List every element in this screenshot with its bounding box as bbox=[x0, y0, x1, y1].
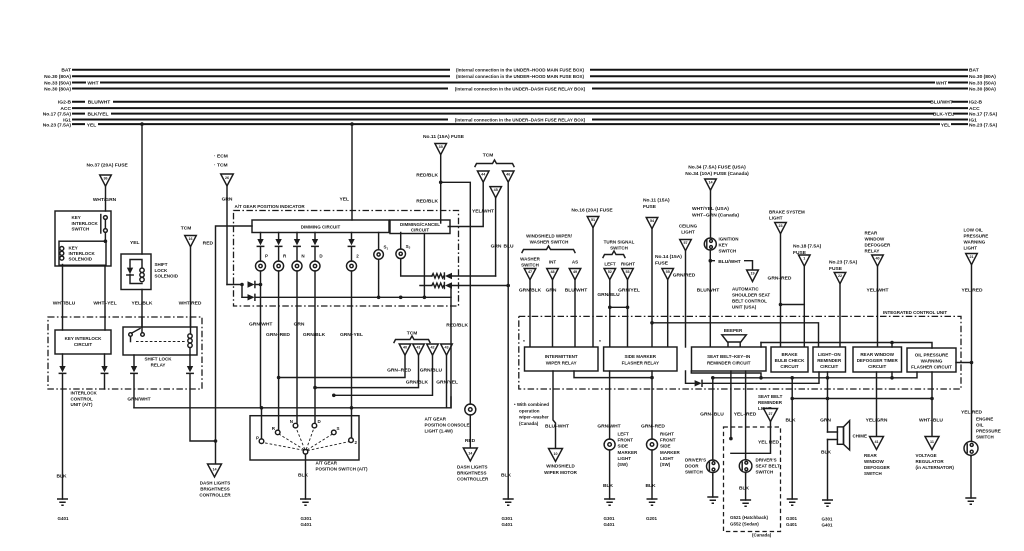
bulb right front side marker light bbox=[647, 439, 658, 450]
key interlock circuit box bbox=[55, 330, 111, 354]
svg-text:LIGHT: LIGHT bbox=[769, 216, 783, 221]
wire WHT-YEL output bbox=[104, 241, 106, 317]
svg-text:WHT: WHT bbox=[87, 80, 98, 86]
svg-text:YEL: YEL bbox=[339, 196, 349, 202]
diode D column bbox=[314, 233, 316, 240]
svg-text:CIRCUIT: CIRCUIT bbox=[868, 364, 886, 369]
wire GRN N column bbox=[296, 271, 298, 423]
svg-text:GRN: GRN bbox=[222, 196, 233, 202]
svg-text:REGULATOR: REGULATOR bbox=[916, 459, 945, 464]
svg-text:No.30 (80A): No.30 (80A) bbox=[969, 74, 996, 80]
svg-text:P: P bbox=[265, 254, 268, 259]
svg-text:SIDE: SIDE bbox=[618, 444, 629, 449]
ground G301 G401 left marker bbox=[604, 499, 615, 505]
svg-text:· ECM: · ECM bbox=[214, 154, 228, 160]
svg-text:CIRCUIT: CIRCUIT bbox=[74, 342, 92, 347]
svg-text:SWITCH: SWITCH bbox=[976, 435, 994, 440]
svg-text:CONTROLLER: CONTROLLER bbox=[457, 477, 489, 482]
wire WHT/YEL fuse to ignition key switch bbox=[710, 190, 712, 238]
svg-text:DRIVER'S: DRIVER'S bbox=[685, 458, 706, 463]
svg-text:ACC: ACC bbox=[969, 106, 980, 112]
svg-text:No.34 (7.5A) FUSE (USA): No.34 (7.5A) FUSE (USA) bbox=[688, 165, 746, 171]
svg-text:11: 11 bbox=[930, 440, 934, 444]
svg-text:WARNING: WARNING bbox=[964, 240, 986, 245]
svg-text:16: 16 bbox=[188, 237, 192, 241]
svg-text:(Internal connection in the UN: (Internal connection in the UNDER–DASH F… bbox=[455, 117, 586, 122]
shift lock solenoid box bbox=[121, 254, 151, 290]
svg-text:UNIT (USA): UNIT (USA) bbox=[732, 305, 757, 310]
svg-text:43: 43 bbox=[444, 346, 448, 350]
svg-text:GRN/WHT: GRN/WHT bbox=[127, 397, 150, 403]
wire BLK switch to ground bbox=[305, 454, 307, 499]
svg-text:BLU/WHT: BLU/WHT bbox=[565, 288, 588, 294]
svg-text:A/T GEAR: A/T GEAR bbox=[425, 417, 447, 422]
svg-text:36: 36 bbox=[103, 177, 107, 181]
shift lock relay contacts bbox=[129, 333, 133, 337]
intermittent wiper relay box bbox=[525, 347, 599, 371]
svg-text:LIGHT–ON: LIGHT–ON bbox=[818, 352, 841, 357]
wire GRN/WHT P column bbox=[260, 271, 262, 285]
svg-text:CEILING: CEILING bbox=[679, 224, 698, 229]
svg-text:GRN/YEL: GRN/YEL bbox=[618, 288, 640, 294]
wire bus No.30 (80A) lower bbox=[73, 88, 967, 90]
svg-text:SWITCH: SWITCH bbox=[521, 262, 539, 267]
dimming/cancel circuit box bbox=[390, 220, 450, 234]
svg-text:LIGHT (1.4W): LIGHT (1.4W) bbox=[425, 429, 454, 434]
svg-text:No.34 (10A) FUSE (Canada): No.34 (10A) FUSE (Canada) bbox=[685, 171, 749, 177]
svg-text:RIGHT: RIGHT bbox=[621, 262, 635, 267]
wire bulb common bus down link bbox=[450, 297, 452, 408]
connector 19 automatic shoulder seat belt control unit bbox=[747, 270, 759, 282]
svg-text:GRN: GRN bbox=[294, 322, 305, 328]
bus annotation internal connection under-hood line2 bbox=[450, 73, 590, 80]
wire GRN/BLU to door switch bbox=[712, 378, 714, 460]
wire GRN from ECM/TCM connector bbox=[226, 186, 228, 285]
svg-text:WHT/RED: WHT/RED bbox=[179, 301, 202, 307]
svg-text:WHT–GRN (Canada): WHT–GRN (Canada) bbox=[692, 213, 739, 219]
svg-text:YEL/WHT: YEL/WHT bbox=[866, 288, 888, 294]
side marker flasher relay box bbox=[604, 347, 677, 371]
svg-text:GRN/BLU: GRN/BLU bbox=[597, 292, 620, 298]
svg-text:operation: operation bbox=[519, 408, 540, 413]
svg-text:G401: G401 bbox=[300, 522, 312, 527]
svg-text:GRN–RED: GRN–RED bbox=[768, 276, 792, 282]
wire wiper relay second output to marker feed bbox=[574, 371, 652, 378]
svg-text:BAT: BAT bbox=[969, 68, 979, 74]
svg-text:GRN/WHT: GRN/WHT bbox=[249, 322, 272, 328]
shift lock relay coil bbox=[188, 334, 192, 338]
svg-text:SIDE: SIDE bbox=[660, 444, 671, 449]
svg-text:1: 1 bbox=[803, 257, 805, 261]
wire WHT/BLU output bbox=[62, 265, 64, 318]
ground G301 G401 switch bbox=[300, 499, 311, 505]
svg-text:YEL/WHT: YEL/WHT bbox=[472, 209, 494, 215]
wire fuse51 to wiper relay bbox=[592, 228, 594, 347]
svg-text:OIL: OIL bbox=[976, 423, 984, 428]
wire GRN light-on to chime bbox=[827, 372, 829, 500]
node key interlock switch junction bbox=[104, 239, 108, 243]
svg-text:(Internal connection in the UN: (Internal connection in the UNDER–HOOD M… bbox=[456, 74, 585, 79]
wire GRN-YEL 2 column bbox=[351, 271, 353, 438]
connector 36 fuse No.37 bbox=[100, 175, 112, 186]
svg-text:SOLENOID: SOLENOID bbox=[69, 257, 93, 262]
svg-text:RED/BLK: RED/BLK bbox=[446, 323, 468, 329]
svg-text:TCM: TCM bbox=[181, 226, 192, 232]
wire WHT/RED from TCM16 bbox=[190, 247, 192, 327]
svg-text:AS: AS bbox=[572, 260, 578, 265]
resistor row1 bbox=[432, 274, 444, 278]
svg-text:FUSE: FUSE bbox=[655, 261, 669, 267]
svg-text:INTERLOCK: INTERLOCK bbox=[69, 251, 96, 256]
svg-text:WASHER: WASHER bbox=[520, 257, 541, 262]
svg-text:GRN: GRN bbox=[491, 244, 502, 250]
wire GRN int to wiper relay bbox=[552, 280, 554, 347]
svg-text:YEL–RED: YEL–RED bbox=[734, 412, 757, 418]
key interlock switch box bbox=[55, 211, 111, 266]
svg-text:G521 (Hatchback): G521 (Hatchback) bbox=[730, 515, 769, 520]
canada dashed box bbox=[724, 427, 781, 532]
switch S1 bbox=[378, 233, 380, 250]
diode common2 bbox=[248, 294, 255, 300]
wire bottom bus L2 bbox=[713, 372, 917, 378]
bus annotation internal connection under-dash line8 bbox=[448, 116, 592, 123]
wire bus No.23 (7.5A) YEL bbox=[73, 123, 967, 125]
svg-text:SHOULDER SEAT: SHOULDER SEAT bbox=[732, 293, 770, 298]
wire seat belt box bottom bus bbox=[691, 371, 761, 378]
wire BLK from L2 to ground bbox=[791, 378, 793, 499]
seat belt key-in reminder circuit box bbox=[692, 347, 767, 371]
wire YEL RED to seat belt switch bbox=[745, 371, 747, 453]
ground door switch bbox=[712, 475, 714, 497]
wire RED/BLK branch to console light bbox=[441, 182, 471, 404]
svg-text:UNIT (A/T): UNIT (A/T) bbox=[71, 402, 93, 407]
connector 45 TCM bbox=[490, 187, 502, 198]
wire WHT/BLU oil flasher to voltage regulator bbox=[931, 372, 933, 437]
shift lock relay box bbox=[123, 327, 197, 355]
svg-text:DIMMING/CANCEL: DIMMING/CANCEL bbox=[400, 222, 440, 227]
svg-text:BLU/WHT: BLU/WHT bbox=[697, 288, 720, 294]
wire GRN-RED tcm40 to R bbox=[279, 355, 405, 377]
connector 42 TCM bbox=[427, 344, 439, 355]
wire YEL/WHT connector44 to dimming cancel bbox=[448, 182, 483, 226]
diode common1 bbox=[248, 281, 255, 287]
svg-text:*: * bbox=[599, 339, 601, 345]
node side marker bridge bbox=[610, 306, 628, 308]
svg-text:N: N bbox=[301, 254, 304, 259]
bus annotation internal connection under-dash line4 bbox=[448, 85, 592, 92]
svg-text:RELAY: RELAY bbox=[865, 249, 880, 254]
svg-text:SIDE MARKER: SIDE MARKER bbox=[625, 354, 657, 359]
svg-text:CONTROLLER: CONTROLLER bbox=[199, 493, 231, 498]
svg-text:BLU/WHT: BLU/WHT bbox=[930, 100, 953, 106]
interlock control unit dashed box bbox=[48, 317, 202, 389]
svg-text:YEL RED: YEL RED bbox=[758, 440, 780, 446]
bulb P bbox=[256, 261, 266, 271]
svg-text:10: 10 bbox=[553, 452, 557, 456]
svg-text:GRN/YEL: GRN/YEL bbox=[436, 380, 458, 386]
bulb 2 bbox=[347, 261, 357, 271]
ignition key switch bbox=[704, 238, 716, 250]
wire YEL RED reminder light to switch bbox=[731, 422, 771, 460]
connector 46 TCM bbox=[502, 171, 514, 182]
switch contact N bbox=[293, 423, 298, 428]
wire bus IG1 bbox=[73, 119, 967, 121]
svg-text:35: 35 bbox=[439, 145, 443, 149]
dimming circuit box bbox=[252, 220, 389, 233]
wire GRN/RED ceiling light to key-in circuit bbox=[685, 251, 687, 347]
svg-text:SEAT BELT–KEY–IN: SEAT BELT–KEY–IN bbox=[707, 354, 750, 359]
svg-text:· TCM: · TCM bbox=[214, 163, 228, 169]
svg-text:WHT/BLU: WHT/BLU bbox=[53, 301, 76, 307]
diode row2 pointing left bbox=[443, 283, 445, 289]
svg-text:• With combined: • With combined bbox=[514, 402, 549, 407]
connector 27 seat belt reminder light bbox=[764, 409, 778, 422]
wire WHT/GRN fuse36 to key interlock switch bbox=[105, 186, 107, 211]
wire BLK seat belt switch bbox=[745, 474, 747, 501]
svg-text:No.23 (7.5A): No.23 (7.5A) bbox=[829, 260, 858, 266]
shift lock solenoid diode branch bbox=[130, 260, 142, 284]
ground oil switch bbox=[965, 498, 976, 504]
console light bulb bbox=[465, 404, 476, 415]
svg-text:WHT–BLU: WHT–BLU bbox=[919, 418, 943, 424]
wire GRN/YEL right turn bbox=[627, 280, 629, 347]
svg-text:DEFOGGER: DEFOGGER bbox=[865, 243, 892, 248]
svg-text:FRONT: FRONT bbox=[618, 438, 634, 443]
svg-text:CIRCUIT: CIRCUIT bbox=[820, 364, 838, 369]
svg-text:BAT: BAT bbox=[61, 68, 71, 74]
svg-text:KEY INTERLOCK: KEY INTERLOCK bbox=[65, 336, 102, 341]
svg-text:wiper–washer: wiper–washer bbox=[518, 415, 549, 420]
svg-text:40: 40 bbox=[403, 346, 407, 350]
svg-text:OIL PRESSURE: OIL PRESSURE bbox=[915, 353, 948, 358]
bulb D bbox=[310, 261, 320, 271]
svg-text:WINDSHIELD: WINDSHIELD bbox=[546, 464, 575, 469]
svg-text:BLK: BLK bbox=[298, 473, 309, 479]
oil pressure warning flasher circuit box bbox=[907, 348, 956, 372]
svg-text:LOCK: LOCK bbox=[155, 268, 168, 273]
svg-text:GRN: GRN bbox=[546, 288, 557, 294]
solenoid coil circles bbox=[60, 247, 64, 251]
svg-text:YEL: YEL bbox=[87, 122, 97, 128]
svg-text:BELT CONTROL: BELT CONTROL bbox=[732, 299, 767, 304]
switch contact 2 bbox=[349, 438, 354, 443]
svg-text:GRN–YEL: GRN–YEL bbox=[340, 332, 363, 338]
wire BLK right marker to ground bbox=[651, 450, 653, 499]
svg-text:REAR: REAR bbox=[865, 231, 879, 236]
switch contact D bbox=[312, 423, 317, 428]
svg-text:KEY: KEY bbox=[72, 215, 81, 220]
wire RED dimming to dash controller bbox=[216, 226, 253, 464]
wire YEL/WHT defogger relay to timer bbox=[877, 266, 879, 347]
svg-text:YEL RED: YEL RED bbox=[961, 410, 983, 416]
svg-text:PRESSURE: PRESSURE bbox=[976, 429, 1001, 434]
switch rotor common bbox=[303, 450, 308, 455]
wire RED/BLK fuse35 to dimming cancel bbox=[440, 155, 442, 223]
svg-text:41: 41 bbox=[416, 346, 420, 350]
bulb left front side marker light bbox=[604, 439, 615, 450]
svg-text:DASH LIGHTS: DASH LIGHTS bbox=[457, 465, 488, 470]
svg-text:51: 51 bbox=[591, 218, 595, 222]
svg-text:No.30 (80A): No.30 (80A) bbox=[44, 86, 71, 92]
wire fuse54 feed to key-in and light-on bbox=[652, 323, 819, 347]
svg-text:IG2-B: IG2-B bbox=[58, 100, 72, 106]
svg-text:GRN–RED: GRN–RED bbox=[387, 368, 411, 374]
svg-text:GRN/BLU: GRN/BLU bbox=[420, 368, 443, 374]
svg-text:VOLTAGE: VOLTAGE bbox=[916, 453, 937, 458]
svg-text:YEL: YEL bbox=[941, 122, 951, 128]
node YEL bus junction x352 bbox=[350, 122, 354, 126]
svg-text:BRIGHTNESS: BRIGHTNESS bbox=[457, 471, 487, 476]
svg-text:42: 42 bbox=[430, 346, 434, 350]
svg-text:WIPER MOTOR: WIPER MOTOR bbox=[544, 470, 577, 475]
svg-text:INT: INT bbox=[549, 260, 557, 265]
svg-text:No.17 (7.5A): No.17 (7.5A) bbox=[43, 112, 72, 118]
a/t gear position switch box bbox=[250, 416, 359, 460]
svg-text:WINDOW: WINDOW bbox=[864, 459, 884, 464]
svg-text:G401: G401 bbox=[821, 523, 833, 528]
svg-text:A/T GEAR POSITION INDICATOR: A/T GEAR POSITION INDICATOR bbox=[235, 204, 306, 209]
svg-text:G301: G301 bbox=[501, 516, 513, 521]
svg-text:BLK: BLK bbox=[56, 474, 67, 480]
svg-text:TURN SIGNAL: TURN SIGNAL bbox=[604, 240, 635, 245]
svg-text:No.11 (15A): No.11 (15A) bbox=[643, 198, 670, 204]
wire GRN/BLU tcm42 to S bbox=[334, 355, 433, 395]
svg-text:RED: RED bbox=[465, 438, 476, 444]
wire bus No.33 (50A) WHT bbox=[73, 82, 967, 84]
svg-text:CONTROL: CONTROL bbox=[71, 396, 93, 401]
svg-text:TCM: TCM bbox=[483, 153, 494, 159]
svg-text:WASHER SWITCH: WASHER SWITCH bbox=[530, 240, 569, 245]
wires into key interlock circuit bbox=[63, 317, 106, 330]
svg-text:WHT–YEL: WHT–YEL bbox=[93, 301, 116, 307]
brake bulb check circuit box bbox=[771, 347, 808, 372]
diode row1 pointing left bbox=[443, 273, 445, 279]
svg-text:RED/BLK: RED/BLK bbox=[416, 173, 438, 179]
diode shift lock relay coil side bbox=[189, 355, 191, 366]
svg-text:G401: G401 bbox=[501, 522, 513, 527]
wire dimming cancel box pin to bus bbox=[423, 234, 425, 298]
svg-text:No.23 (7.5A): No.23 (7.5A) bbox=[43, 122, 72, 128]
svg-text:21: 21 bbox=[969, 255, 973, 259]
svg-text:G552 (Sedan): G552 (Sedan) bbox=[730, 522, 759, 527]
wires into shift lock relay bbox=[131, 317, 191, 355]
diode shift lock relay left bbox=[133, 355, 135, 366]
wire YEL RED low oil light to flasher and switch bbox=[971, 265, 973, 442]
svg-text:(SW): (SW) bbox=[618, 462, 629, 467]
svg-text:SWITCH: SWITCH bbox=[610, 246, 628, 251]
wire BLU/WHT as to wiper relay bbox=[574, 280, 576, 347]
svg-text:FLASHER RELAY: FLASHER RELAY bbox=[622, 361, 659, 366]
wire S1 to common bus bbox=[378, 259, 380, 297]
driver's door switch bbox=[707, 460, 720, 473]
svg-text:26: 26 bbox=[225, 176, 229, 180]
wire fuse22 to light-on reminder bbox=[839, 284, 841, 347]
svg-text:REMINDER CIRCUIT: REMINDER CIRCUIT bbox=[707, 361, 751, 366]
svg-text:SWITCH: SWITCH bbox=[756, 470, 774, 475]
switch contact P bbox=[261, 408, 263, 439]
svg-text:N: N bbox=[290, 419, 293, 424]
rear window defogger timer circuit box bbox=[853, 347, 902, 372]
wire GRN/BLK tcm41 to D bbox=[315, 355, 419, 387]
svg-text:(in ALTERNATOR): (in ALTERNATOR) bbox=[916, 465, 955, 470]
wire brake light branch to fuse1 column bbox=[781, 304, 805, 306]
svg-text:WHT/YEL (USA): WHT/YEL (USA) bbox=[692, 206, 729, 212]
svg-text:RELAY: RELAY bbox=[151, 362, 166, 367]
svg-text:52: 52 bbox=[608, 270, 612, 274]
switch contact S bbox=[332, 430, 337, 435]
wire GRN/BLU left turn bbox=[609, 280, 611, 347]
svg-text:G401: G401 bbox=[786, 522, 798, 527]
ground G201 right marker bbox=[647, 499, 658, 505]
svg-text:GRN–RED: GRN–RED bbox=[266, 332, 290, 338]
svg-text:MARKER: MARKER bbox=[660, 450, 680, 455]
svg-text:POSITION SWITCH (A/T): POSITION SWITCH (A/T) bbox=[316, 466, 368, 471]
wire oil switch to ground bbox=[970, 455, 972, 498]
wire branch to shoulder belt unit bbox=[710, 261, 752, 270]
svg-text:SOLENOID: SOLENOID bbox=[155, 274, 179, 279]
wire GRN/RED brake light to brake bulb check bbox=[780, 234, 782, 347]
svg-text:FUSE: FUSE bbox=[829, 266, 843, 272]
wire bus IG2-8 BLU/WHT bbox=[73, 101, 967, 103]
wire bus No.17 (7.5A) BLK/YEL bbox=[73, 113, 967, 115]
svg-text:G401: G401 bbox=[57, 516, 69, 521]
svg-text:SEAT BELT: SEAT BELT bbox=[758, 394, 783, 399]
svg-text:G301: G301 bbox=[603, 516, 615, 521]
svg-text:CIRCUIT: CIRCUIT bbox=[411, 228, 429, 233]
svg-text:IG2-B: IG2-B bbox=[969, 100, 983, 106]
diode key interlock to ground bbox=[62, 354, 64, 366]
diode N column bbox=[296, 233, 298, 240]
svg-text:S3: S3 bbox=[406, 244, 411, 250]
wire YEL/BLK bbox=[141, 290, 143, 328]
svg-text:BLU/WHT: BLU/WHT bbox=[88, 100, 111, 106]
svg-text:POSITION CONSOLE: POSITION CONSOLE bbox=[425, 423, 470, 428]
svg-text:No.14 (15A): No.14 (15A) bbox=[655, 254, 682, 260]
wire GRN from connector 45 bbox=[495, 198, 497, 276]
svg-text:REAR: REAR bbox=[864, 453, 878, 458]
svg-text:(SW): (SW) bbox=[660, 462, 671, 467]
engine oil pressure switch bbox=[964, 441, 978, 455]
svg-text:S: S bbox=[337, 426, 340, 431]
diode P column bbox=[260, 233, 262, 240]
svg-text:LEFT: LEFT bbox=[604, 262, 615, 267]
svg-text:No.30 (80A): No.30 (80A) bbox=[969, 86, 996, 92]
svg-text:BLK/YEL: BLK/YEL bbox=[88, 112, 109, 118]
ground G301 G401 x792 bbox=[787, 499, 798, 505]
wire bus No.30 (80A) bbox=[73, 75, 967, 77]
wire GRN-RED R column bbox=[278, 271, 280, 430]
svg-text:DASH LIGHTS: DASH LIGHTS bbox=[200, 481, 231, 486]
svg-text:LIGHT: LIGHT bbox=[618, 456, 632, 461]
svg-text:57: 57 bbox=[683, 241, 687, 245]
wire GRN/WHT left front marker bbox=[609, 371, 611, 439]
svg-text:BLU–WHT: BLU–WHT bbox=[545, 424, 569, 430]
svg-text:SWITCH: SWITCH bbox=[719, 249, 737, 254]
svg-text:IGNITION: IGNITION bbox=[719, 237, 739, 242]
common bus under bulbs bbox=[227, 284, 242, 286]
svg-text:CHIME: CHIME bbox=[853, 434, 868, 439]
svg-text:BLU: BLU bbox=[503, 244, 514, 250]
wire GRN/BLK washer to wiper relay bbox=[529, 280, 531, 347]
svg-text:BLK: BLK bbox=[821, 450, 832, 456]
svg-text:GRN/BLK: GRN/BLK bbox=[519, 288, 542, 294]
switch contact R bbox=[275, 430, 280, 435]
diode R column bbox=[278, 233, 280, 240]
svg-text:40: 40 bbox=[875, 257, 879, 261]
svg-text:BLK: BLK bbox=[739, 486, 750, 492]
ground G521 G552 bbox=[740, 500, 751, 506]
svg-text:LIGHT: LIGHT bbox=[660, 456, 674, 461]
